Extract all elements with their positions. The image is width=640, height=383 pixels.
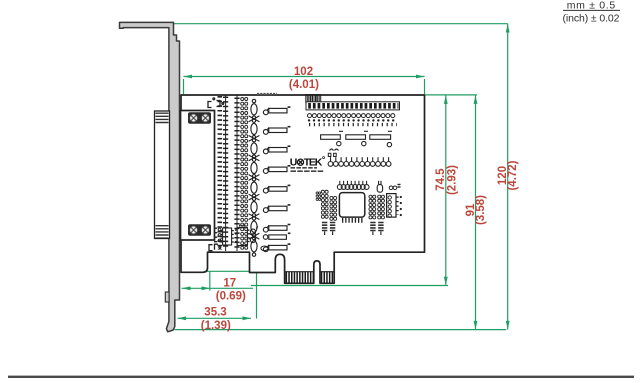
dimension 120 line bbox=[506, 24, 510, 330]
jack screw bottom bbox=[188, 224, 211, 235]
capacitor C-top bbox=[377, 181, 382, 192]
dimension 102 line bbox=[184, 75, 425, 79]
tolerance fraction bar bbox=[563, 9, 620, 11]
svg-text:(1.39): (1.39) bbox=[201, 320, 231, 332]
U1 bottom pins bbox=[342, 218, 363, 223]
svg-text:(4.72): (4.72) bbox=[507, 160, 519, 190]
resistor network blocks top-left bbox=[306, 95, 311, 103]
extension line top (bracket to 120 dim) bbox=[174, 23, 508, 25]
solder legs under resistors bbox=[330, 149, 339, 151]
silkscreen micro text top-left bbox=[257, 93, 277, 95]
DIP IC U2 bbox=[387, 194, 398, 218]
logo subtext line 1 bbox=[291, 167, 318, 169]
dimension 17 line bbox=[182, 286, 254, 290]
resistor R-ll bbox=[269, 233, 291, 239]
extension line 35.3 dim vertical bbox=[256, 253, 258, 319]
small pads right top bbox=[389, 185, 400, 190]
extension line board-top right (74.5/91 dims) bbox=[425, 94, 477, 96]
pin ladder column 3 bbox=[236, 95, 238, 251]
pin ladder column 2 bbox=[225, 95, 227, 251]
port row 6: header, transistor, resistor bbox=[249, 197, 291, 219]
D-sub shell protruding through bracket bbox=[155, 111, 170, 239]
svg-text:74.5: 74.5 bbox=[435, 168, 447, 191]
D-sub shell top rib bbox=[156, 113, 169, 124]
svg-text:(2.93): (2.93) bbox=[446, 165, 458, 195]
bracket lower tab bbox=[165, 292, 169, 302]
PCB outline bbox=[181, 95, 425, 283]
svg-text:mm ± 0.5: mm ± 0.5 bbox=[567, 0, 616, 12]
DIP switch strip bbox=[306, 102, 400, 110]
UOTEK logo bbox=[290, 156, 325, 168]
extension line 17 dim vertical bbox=[209, 272, 211, 291]
svg-text:(4.01): (4.01) bbox=[289, 79, 319, 91]
dimension 74.5 line bbox=[444, 95, 448, 285]
svg-text:(inch) ± 0.02: (inch) ± 0.02 bbox=[563, 13, 620, 25]
silkscreen text bar left A bbox=[322, 222, 327, 235]
extension line connector bottom y271 bbox=[183, 270, 276, 272]
silkscreen text bar left B bbox=[330, 222, 335, 235]
dimension 91 line bbox=[474, 95, 478, 329]
header strip left B bbox=[330, 196, 337, 220]
silkscreen bracket marks bottom bbox=[209, 244, 221, 251]
pad pair lower-left bbox=[250, 227, 258, 243]
tolerance note mm bbox=[567, 0, 616, 12]
port row 4: header, transistor, resistor bbox=[249, 158, 291, 180]
extension line y285 (74.5 bottom) bbox=[251, 285, 448, 287]
capacitor row above U1 bbox=[337, 181, 369, 190]
capacitor row mid-board bbox=[328, 157, 391, 166]
header strip right B bbox=[378, 195, 385, 219]
svg-text:U⊗TEK: U⊗TEK bbox=[290, 156, 323, 168]
bottom border line bbox=[8, 376, 634, 378]
resistor R-A bbox=[321, 131, 343, 146]
extension line 102 right bbox=[424, 79, 426, 94]
pad grid left bbox=[316, 192, 321, 201]
via ring column pair bbox=[241, 98, 248, 250]
stray pad bottom of column bbox=[261, 246, 268, 251]
via dots right of U2 bbox=[400, 196, 402, 216]
svg-text:102: 102 bbox=[294, 66, 313, 78]
port row 5: header, transistor, resistor bbox=[249, 178, 291, 200]
QFP chip U1 bbox=[339, 193, 364, 218]
silkscreen bracket marks top bbox=[208, 98, 224, 108]
header strip left A bbox=[321, 190, 328, 218]
resistor R-B bbox=[346, 131, 368, 146]
svg-text:(3.58): (3.58) bbox=[475, 195, 487, 225]
extension line 102 left bbox=[183, 79, 185, 94]
logo subtext line 2 bbox=[291, 170, 324, 172]
small IC X2 bbox=[236, 226, 249, 246]
extension line bottom (91/120 dims) bbox=[175, 329, 507, 331]
port row 7: header, transistor, resistor bbox=[249, 217, 291, 239]
port row 1: header, transistor, resistor bbox=[249, 99, 291, 121]
pin ladder column 1 bbox=[218, 96, 223, 250]
port row 3: header, transistor, resistor bbox=[249, 138, 291, 160]
silkscreen text bar right A bbox=[370, 222, 375, 235]
small pad row bbox=[309, 119, 397, 121]
svg-text:35.3: 35.3 bbox=[204, 307, 226, 319]
edge connector gold fingers group 1 bbox=[285, 272, 314, 278]
leading caps marks bbox=[328, 153, 336, 156]
pad column lower-left bbox=[218, 228, 221, 242]
D-sub connector J1 body bbox=[181, 111, 215, 241]
pin dash column lower-left bbox=[214, 228, 217, 245]
D-sub shell bottom rib bbox=[156, 225, 169, 238]
tolerance note inch bbox=[563, 13, 620, 25]
transistor Q-ll bbox=[263, 235, 268, 240]
pad ring row under strip bbox=[308, 114, 395, 118]
pin dash row bbox=[309, 123, 397, 126]
small IC X1 bbox=[221, 228, 232, 245]
port row 8: header, transistor, resistor bbox=[251, 236, 291, 256]
svg-text:(0.69): (0.69) bbox=[216, 290, 246, 302]
svg-text:17: 17 bbox=[223, 277, 236, 289]
port row 2: header, transistor, resistor bbox=[249, 119, 291, 141]
resistor R-C bbox=[370, 131, 392, 147]
PCI bracket bbox=[120, 22, 180, 331]
dimension 35.3 line bbox=[178, 316, 252, 320]
silkscreen text bar right B bbox=[378, 222, 383, 235]
edge connector gold fingers group 2 bbox=[320, 272, 334, 278]
jack screw top bbox=[188, 112, 211, 123]
header strip right A bbox=[369, 195, 376, 219]
